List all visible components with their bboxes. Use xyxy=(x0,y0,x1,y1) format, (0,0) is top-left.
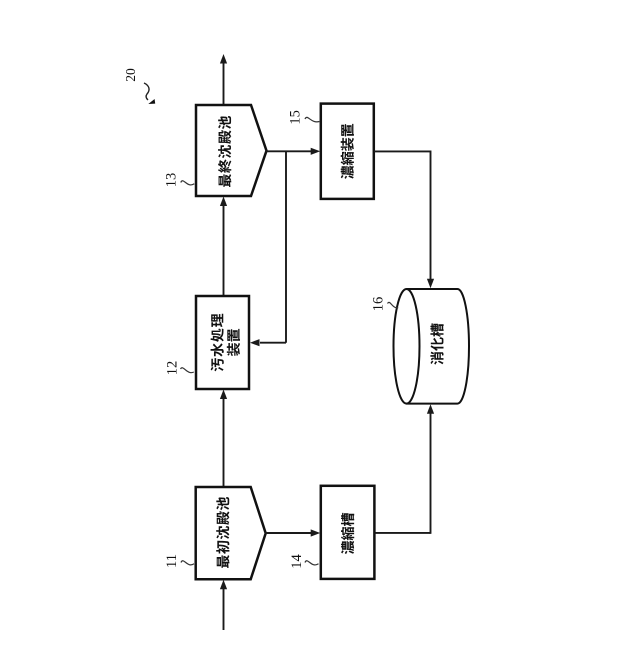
text 最初沈殿池 xyxy=(216,497,229,568)
svg-text:12: 12 xyxy=(164,361,180,376)
wire 15 to digester with arrow xyxy=(374,151,434,289)
svg-text:13: 13 xyxy=(163,173,179,188)
branch wire junction down to 12 xyxy=(250,151,286,346)
leader squiggle 16 xyxy=(388,302,399,307)
box 15 濃縮装置 (thickening device) xyxy=(321,104,374,199)
sludge wire 13 to 15 xyxy=(266,148,321,155)
top output wire xyxy=(220,54,227,104)
box 14 濃縮槽 (thickener) xyxy=(321,486,375,579)
label 20 (system reference) xyxy=(123,68,138,82)
svg-text:15: 15 xyxy=(288,110,304,125)
text 汚水処理/装置 xyxy=(211,314,240,372)
label 13 xyxy=(163,173,179,188)
tank 11 最初沈殿池 (primary sedimentation basin, pentagon) xyxy=(196,487,266,579)
wire 11 to 12 with arrow xyxy=(220,390,227,488)
label 14 xyxy=(289,554,305,569)
leader squiggle 11 xyxy=(181,561,194,565)
text 最終沈殿池 xyxy=(218,116,231,187)
label 11 xyxy=(164,554,180,568)
svg-text:14: 14 xyxy=(289,554,305,569)
bottom input wire with arrow xyxy=(220,580,227,630)
leader squiggle 12 xyxy=(181,368,194,373)
label 12 xyxy=(164,361,180,376)
label 16 xyxy=(370,297,386,312)
leader squiggle 13 xyxy=(181,181,195,185)
text 濃縮槽 xyxy=(341,513,354,554)
cylinder left rim arc xyxy=(407,289,420,404)
sludge wire 11 to 14 xyxy=(265,529,321,536)
svg-text:11: 11 xyxy=(164,554,180,568)
text 消化槽 xyxy=(430,323,443,364)
box 12 汚水処理装置 (sewage treatment device) xyxy=(196,296,249,389)
tank 13 最終沈殿池 (final sedimentation basin, pentagon) xyxy=(196,105,267,196)
leader squiggle 15 xyxy=(305,117,319,122)
wire 12 to 13 with arrow xyxy=(220,197,227,297)
digester tank 16 消化槽 (cylinder) xyxy=(394,289,470,404)
svg-text:20: 20 xyxy=(123,68,138,82)
wire 14 to digester with arrow xyxy=(374,404,434,534)
label 15 xyxy=(288,110,304,125)
leader squiggle arrow 20 xyxy=(144,83,155,104)
text 濃縮装置 xyxy=(341,124,354,179)
leader squiggle 14 xyxy=(305,561,319,565)
svg-text:16: 16 xyxy=(370,297,386,312)
